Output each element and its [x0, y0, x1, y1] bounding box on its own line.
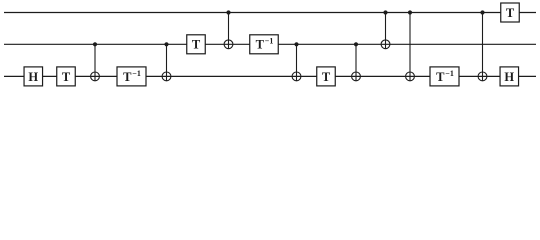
svg-text:H: H: [504, 70, 514, 84]
svg-text:T: T: [436, 70, 445, 84]
svg-text:T: T: [123, 70, 132, 84]
svg-text:T: T: [62, 70, 71, 84]
svg-text:H: H: [28, 70, 38, 84]
svg-text:−1: −1: [132, 69, 141, 78]
svg-text:T: T: [256, 38, 265, 52]
svg-text:−1: −1: [265, 37, 274, 46]
svg-text:T: T: [506, 6, 515, 20]
svg-text:T: T: [192, 38, 201, 52]
svg-text:T: T: [322, 70, 331, 84]
svg-text:−1: −1: [445, 69, 454, 78]
